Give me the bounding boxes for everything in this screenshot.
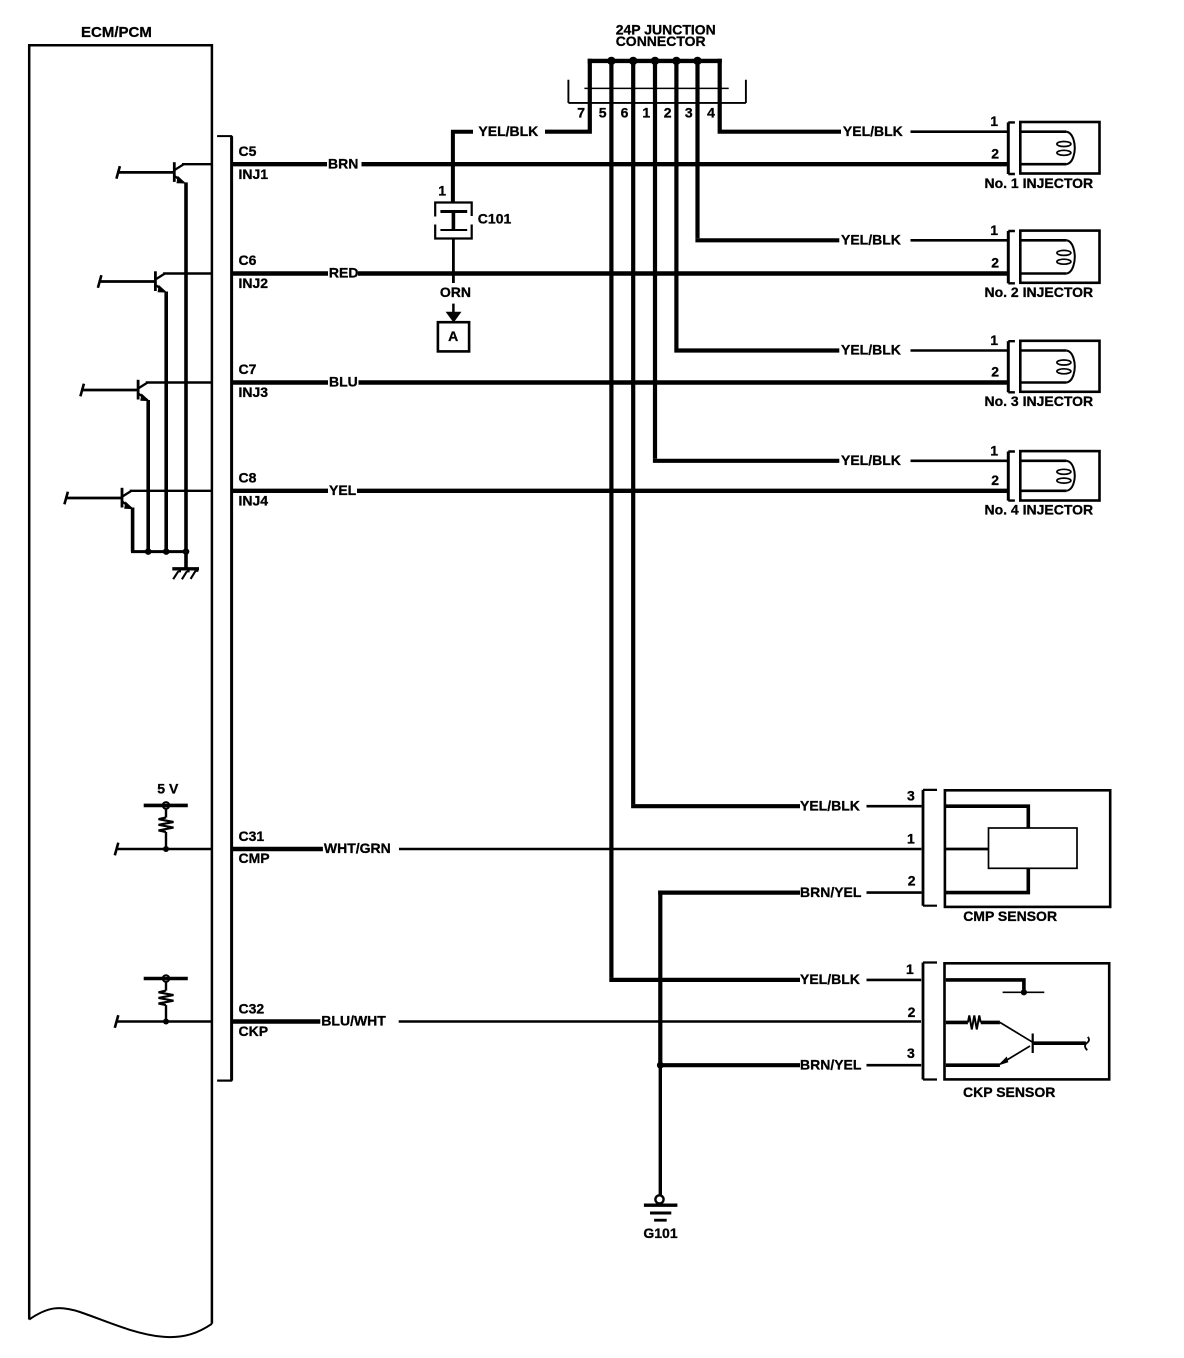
svg-text:No. 1 INJECTOR: No. 1 INJECTOR [984, 175, 1093, 191]
svg-text:1: 1 [906, 961, 914, 977]
svg-text:ORN: ORN [440, 284, 471, 300]
svg-text:No. 3 INJECTOR: No. 3 INJECTOR [984, 393, 1093, 409]
label YEL/BLK (No.3 injector) [841, 342, 901, 358]
node bus pin 6 [629, 57, 637, 65]
CKP internal pin 1 wire with test tap [946, 978, 1045, 995]
pin 3 label CMP [907, 788, 915, 804]
ground G101 [644, 1195, 678, 1220]
svg-text:A: A [448, 328, 458, 344]
CMP internal pin 2 wire [946, 868, 1028, 894]
svg-text:C32: C32 [239, 1000, 265, 1016]
svg-text:YEL/BLK: YEL/BLK [800, 797, 860, 813]
pin 1 label No.1 injector [990, 113, 998, 129]
No.1 injector connector bracket [1008, 122, 1015, 174]
svg-text:BLU/WHT: BLU/WHT [321, 1013, 386, 1029]
ECM/PCM box label [81, 24, 152, 41]
pin 1 label No.2 injector [990, 222, 998, 238]
svg-text:YEL/BLK: YEL/BLK [841, 452, 901, 468]
node bus pin 2 [672, 57, 680, 65]
label YEL/BLK (CKP pin 1) [800, 971, 860, 987]
svg-text:5 V: 5 V [157, 780, 179, 796]
svg-text:2: 2 [908, 872, 916, 888]
label BRN/YEL (CKP pin 3) [800, 1056, 862, 1072]
ECM/PCM box outline [29, 45, 212, 1337]
svg-text:2: 2 [908, 1004, 916, 1020]
wire Q1 collector to strip [182, 163, 213, 165]
wire Q1 emitter down [184, 182, 188, 553]
5V supply terminal (CKP pull-up) [144, 975, 188, 982]
label BLU/WHT [321, 1013, 386, 1029]
svg-text:G101: G101 [643, 1225, 677, 1241]
svg-text:1: 1 [990, 442, 998, 458]
pin 2 label No.1 injector [991, 145, 999, 161]
label RED [329, 265, 359, 281]
svg-text:CMP SENSOR: CMP SENSOR [963, 908, 1057, 924]
wire Q2 collector to strip [163, 272, 213, 274]
pin C8 label [239, 469, 269, 508]
wire C32 inside ECM [115, 1015, 213, 1028]
pin number 6 [621, 105, 629, 121]
pin number 2 [664, 105, 672, 121]
wire pin 7 to YEL/BLK left [545, 59, 592, 132]
CMP sensor element [989, 828, 1078, 868]
pin 2 label CKP [908, 1004, 916, 1020]
wire BRN (C5 to No.1 injector) [231, 162, 1008, 166]
node BRN/YEL to CKP pin 3 [657, 1062, 664, 1069]
node Q3 emitter junction [145, 548, 152, 555]
svg-text:CKP SENSOR: CKP SENSOR [963, 1084, 1055, 1100]
svg-text:C6: C6 [239, 252, 257, 268]
svg-text:3: 3 [685, 105, 693, 121]
svg-text:BRN/YEL: BRN/YEL [800, 884, 862, 900]
label BLU [329, 374, 358, 390]
label ORN [440, 284, 471, 300]
transistor Q3 (INJ3 driver) [80, 380, 149, 401]
svg-text:1: 1 [990, 332, 998, 348]
pin 2 label No.4 injector [991, 472, 999, 488]
wire pin 1 down [653, 61, 657, 459]
svg-text:INJ2: INJ2 [239, 275, 269, 291]
svg-text:CONNECTOR: CONNECTOR [616, 33, 706, 49]
label YEL/BLK (C101 feed) [478, 123, 538, 139]
svg-text:5: 5 [599, 105, 607, 121]
svg-text:1: 1 [907, 831, 915, 847]
CMP connector bracket [923, 790, 937, 906]
wire WHT/GRN (C31 to CMP sensor) [231, 847, 921, 851]
CKP internal pickup coil [946, 1015, 1033, 1042]
injector No.4 (coil in box) [1020, 451, 1099, 500]
wire to internal ground [184, 552, 188, 569]
wire common emitter bus [131, 550, 186, 553]
wire YEL/BLK to No.1 injector pin 1 [911, 130, 1009, 133]
label CMP SENSOR [963, 908, 1057, 924]
node R1 to CMP wire [163, 846, 169, 852]
pin 1 label No.4 injector [990, 442, 998, 458]
pin 2 label No.3 injector [991, 364, 999, 380]
label YEL/BLK (No.2 injector) [841, 232, 901, 248]
svg-text:INJ3: INJ3 [239, 384, 269, 400]
CKP connector bracket [923, 963, 937, 1080]
svg-text:RED: RED [329, 265, 359, 281]
capacitor C101 (feed-through) [435, 203, 472, 239]
pin 2 label No.2 injector [991, 255, 999, 271]
pin 3 label CKP [907, 1045, 915, 1061]
wire BRN/YEL (CMP pin 2) [658, 891, 800, 1066]
wire pin 2 to No.3 injector [674, 348, 839, 352]
wire pin 3 down [695, 61, 699, 238]
wire pin 6 down [631, 61, 635, 804]
pin 1 label No.3 injector [990, 332, 998, 348]
wire pin 2 down [674, 61, 678, 349]
wire YEL (C8 to No.4 injector) [231, 489, 1008, 493]
svg-text:YEL/BLK: YEL/BLK [478, 123, 538, 139]
transistor Q4 (INJ4 driver) [64, 488, 133, 509]
label G101 [643, 1225, 677, 1241]
svg-text:1: 1 [990, 222, 998, 238]
svg-text:1: 1 [642, 105, 650, 121]
wire BRN/YEL to CMP bracket [867, 891, 922, 894]
svg-text:2: 2 [991, 472, 999, 488]
wire BLU/WHT (C32 to CKP sensor) [231, 1019, 921, 1023]
node Q2 emitter junction [163, 548, 170, 555]
label 24P JUNCTION CONNECTOR [616, 21, 716, 49]
ground (ECM internal) [172, 569, 199, 580]
injector No.3 (coil in box) [1020, 341, 1099, 392]
wire Q2 emitter down [164, 292, 168, 554]
wire Q4 collector to strip [130, 490, 213, 492]
svg-text:BRN/YEL: BRN/YEL [800, 1056, 862, 1072]
svg-text:CKP: CKP [239, 1023, 269, 1039]
node bus pin 1 [651, 57, 659, 65]
transistor Q1 (INJ1 driver) [116, 162, 186, 183]
svg-text:C5: C5 [239, 143, 257, 159]
resistor R1 (CMP pull-up) [159, 808, 174, 849]
svg-text:3: 3 [907, 788, 915, 804]
wire Q3 collector to strip [146, 381, 213, 383]
label No. 4 INJECTOR [984, 502, 1093, 518]
wire YEL/BLK to CMP bracket [867, 805, 922, 808]
pin number 5 [599, 105, 607, 121]
label 5 V [157, 780, 179, 796]
label No. 1 INJECTOR [984, 175, 1093, 191]
pin 2 label CMP [908, 872, 916, 888]
svg-text:6: 6 [621, 105, 629, 121]
svg-text:C101: C101 [478, 210, 512, 226]
injector No.2 (coil in box) [1020, 231, 1099, 283]
wire RED (C6 to No.2 injector) [231, 271, 1008, 275]
svg-text:No. 4 INJECTOR: No. 4 INJECTOR [984, 502, 1093, 518]
svg-text:4: 4 [707, 105, 715, 121]
svg-text:YEL/BLK: YEL/BLK [841, 232, 901, 248]
wire junction bus bar [588, 59, 722, 63]
svg-text:1: 1 [990, 113, 998, 129]
svg-text:2: 2 [991, 255, 999, 271]
label YEL/BLK (No.1 injector) [843, 123, 903, 139]
wire pin 5 to CKP pin 1 [609, 978, 800, 980]
node bus pin 3 [693, 57, 701, 65]
CMP sensor box [945, 790, 1110, 907]
svg-text:No. 2 INJECTOR: No. 2 INJECTOR [984, 284, 1093, 300]
CMP internal pin 1 wire [946, 848, 989, 851]
wire YEL/BLK to No.4 injector pin 1 [911, 459, 1009, 462]
wire Q3 emitter down [146, 400, 150, 553]
pin C6 label [239, 252, 269, 291]
svg-text:YEL/BLK: YEL/BLK [800, 971, 860, 987]
pin number 4 [707, 105, 715, 121]
wire BRN/YEL to CKP bracket [867, 1064, 922, 1067]
24P junction connector housing [568, 80, 746, 103]
label WHT/GRN [324, 840, 391, 856]
node bus pin 5 [607, 57, 615, 65]
svg-text:YEL/BLK: YEL/BLK [841, 342, 901, 358]
svg-text:7: 7 [577, 105, 585, 121]
wire YEL/BLK to No.3 injector pin 1 [911, 349, 1009, 352]
label No. 2 INJECTOR [984, 284, 1093, 300]
label A [448, 328, 458, 344]
pin 1 label CKP [906, 961, 914, 977]
pin C31 label [239, 828, 270, 866]
wire BLU (C7 to No.3 injector) [231, 380, 1008, 384]
No.2 injector connector bracket [1008, 231, 1015, 283]
wire BRN/YEL (CKP pin 3) [660, 1063, 800, 1067]
wire ORN (C101 to RED wire and connector A) [452, 239, 455, 284]
svg-text:YEL: YEL [329, 482, 357, 498]
svg-text:WHT/GRN: WHT/GRN [324, 840, 391, 856]
pin number 1 [642, 105, 650, 121]
svg-text:C7: C7 [239, 361, 257, 377]
wire pin 1 to No.4 injector [653, 459, 839, 463]
label BRN [328, 155, 358, 171]
label BRN/YEL (CMP pin 2) [800, 884, 862, 900]
pin C7 label [239, 361, 269, 400]
svg-text:1: 1 [438, 182, 446, 198]
svg-text:2: 2 [991, 145, 999, 161]
wire BRN/YEL to ground G101 [659, 1065, 662, 1195]
node Q1 emitter junction [183, 548, 190, 555]
svg-text:2: 2 [991, 364, 999, 380]
ECM connector strip [217, 136, 232, 1081]
node R2 to CKP wire [163, 1019, 169, 1025]
CKP internal core bar [1033, 1034, 1089, 1054]
pin number 3 [685, 105, 693, 121]
wire pin 6 to CMP pin 3 [631, 804, 800, 808]
svg-text:C31: C31 [239, 828, 265, 844]
label YEL/BLK (No.4 injector) [841, 452, 901, 468]
CMP internal pin 3 wire [946, 804, 1028, 828]
pin C32 label [239, 1000, 269, 1039]
label YEL [329, 482, 357, 498]
pin 1 label of C101 [438, 182, 446, 198]
svg-text:INJ1: INJ1 [239, 166, 269, 182]
5V supply terminal (CMP pull-up) [144, 802, 188, 809]
svg-text:INJ4: INJ4 [239, 493, 269, 509]
CKP sensor box [945, 963, 1110, 1079]
label C101 [478, 210, 512, 226]
pin 1 label CMP [907, 831, 915, 847]
No.4 injector connector bracket [1008, 452, 1015, 501]
svg-text:CMP: CMP [239, 850, 270, 866]
resistor R2 (CKP pull-up) [159, 981, 174, 1021]
wire pin 4 to No.1 injector [718, 59, 841, 132]
wire YEL/BLK to CKP bracket [867, 979, 922, 982]
label CKP SENSOR [963, 1084, 1055, 1100]
pin C5 label [239, 143, 269, 182]
svg-text:BRN: BRN [328, 155, 358, 171]
pin number 7 [577, 105, 585, 121]
label No. 3 INJECTOR [984, 393, 1093, 409]
connector A box [438, 322, 469, 351]
No.3 injector connector bracket [1008, 341, 1015, 392]
arrow to connector A [446, 304, 462, 323]
svg-text:YEL/BLK: YEL/BLK [843, 123, 903, 139]
transistor Q2 (INJ2 driver) [98, 271, 167, 292]
svg-text:BLU: BLU [329, 374, 358, 390]
CKP internal pin 3 wire with arrow [946, 1046, 1030, 1066]
wire C31 inside ECM [115, 843, 213, 856]
wire YEL/BLK to No.2 injector pin 1 [911, 239, 1009, 242]
svg-text:3: 3 [907, 1045, 915, 1061]
label YEL/BLK (CMP pin 3) [800, 797, 860, 813]
svg-text:C8: C8 [239, 469, 257, 485]
svg-text:2: 2 [664, 105, 672, 121]
wire pin 3 to No.2 injector [695, 238, 839, 242]
injector No.1 (coil in box) [1020, 122, 1099, 174]
wire pin 5 down [609, 61, 613, 978]
wire YEL/BLK to C101 [451, 130, 473, 203]
svg-text:ECM/PCM: ECM/PCM [81, 24, 152, 41]
wire Q4 emitter down [131, 508, 135, 552]
